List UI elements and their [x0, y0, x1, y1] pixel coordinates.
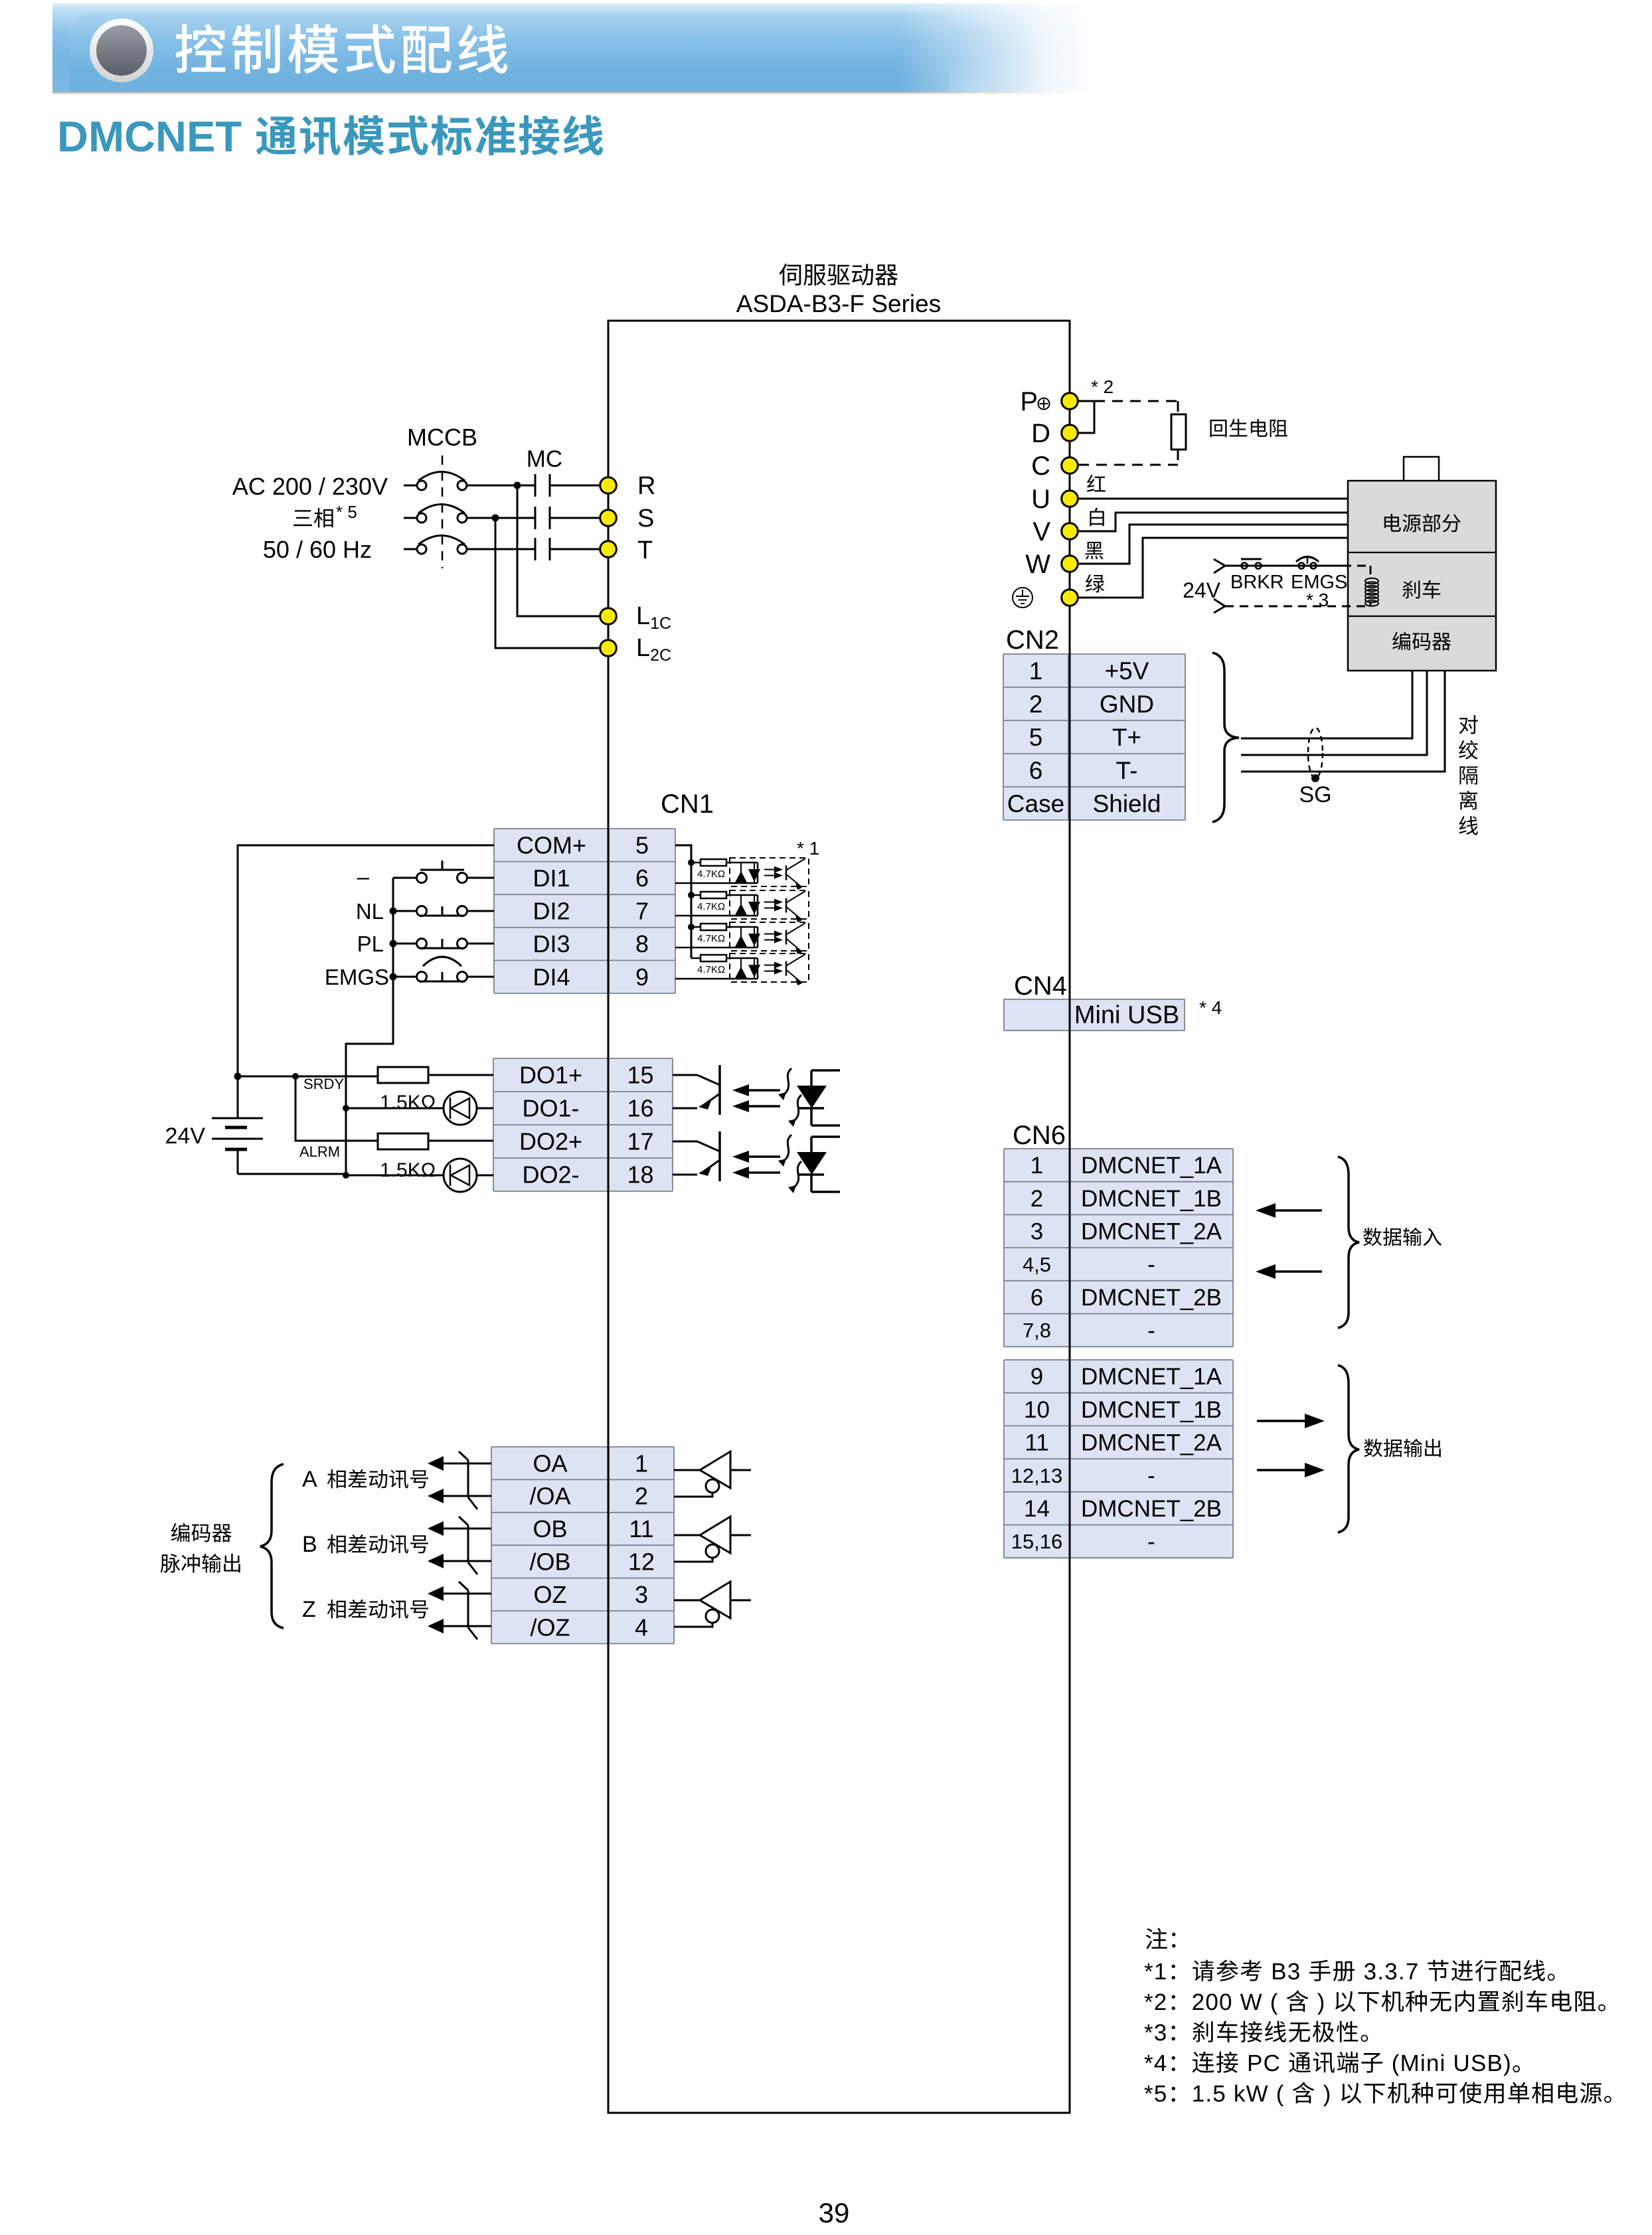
svg-text:DMCNET_1A: DMCNET_1A: [1081, 1153, 1222, 1179]
svg-text:5: 5: [1029, 724, 1043, 751]
svg-text:DI2: DI2: [533, 898, 570, 925]
svg-text:DMCNET_2B: DMCNET_2B: [1081, 1285, 1222, 1311]
svg-text:17: 17: [627, 1128, 653, 1155]
svg-text:11: 11: [629, 1515, 653, 1542]
svg-text:4: 4: [635, 1614, 648, 1641]
svg-text:-: -: [1147, 1252, 1155, 1278]
svg-text:9: 9: [635, 963, 649, 991]
svg-text:DMCNET_2A: DMCNET_2A: [1081, 1430, 1222, 1456]
svg-text:8: 8: [635, 930, 649, 957]
svg-text:R: R: [637, 472, 655, 500]
svg-text:15: 15: [627, 1062, 653, 1089]
svg-text:18: 18: [627, 1161, 653, 1189]
svg-text:DMCNET_2B: DMCNET_2B: [1081, 1496, 1222, 1522]
svg-text:9: 9: [1031, 1364, 1043, 1390]
svg-text:D: D: [1031, 419, 1050, 448]
svg-text:4.7KΩ: 4.7KΩ: [697, 869, 725, 880]
svg-text:ASDA-B3-F Series: ASDA-B3-F Series: [736, 290, 941, 317]
svg-text:* 1: * 1: [797, 838, 819, 859]
svg-text:7,8: 7,8: [1023, 1319, 1051, 1342]
svg-text:DO2+: DO2+: [519, 1128, 582, 1155]
svg-text:Case: Case: [1007, 790, 1064, 817]
svg-text:6: 6: [635, 865, 649, 892]
svg-text:24V: 24V: [165, 1123, 206, 1149]
svg-text:1: 1: [1029, 657, 1043, 685]
svg-text:SG: SG: [1299, 782, 1331, 807]
svg-text:DI3: DI3: [533, 930, 570, 957]
svg-text:1: 1: [1031, 1153, 1043, 1179]
svg-text:14: 14: [1024, 1496, 1050, 1522]
svg-text:CN2: CN2: [1006, 625, 1059, 655]
svg-text:DMCNET_1A: DMCNET_1A: [1081, 1364, 1222, 1390]
svg-text:* 3: * 3: [1306, 590, 1329, 610]
svg-text:EMGS: EMGS: [325, 965, 389, 989]
svg-text:T-: T-: [1116, 757, 1138, 784]
svg-text:DI4: DI4: [533, 963, 570, 991]
svg-text:DI1: DI1: [533, 865, 570, 892]
svg-text:OZ: OZ: [534, 1581, 567, 1608]
svg-text:PL: PL: [357, 932, 384, 956]
svg-text:3: 3: [1031, 1219, 1043, 1245]
svg-text:1.5KΩ: 1.5KΩ: [380, 1092, 436, 1114]
svg-text:DO1+: DO1+: [519, 1062, 582, 1089]
svg-text:1.5KΩ: 1.5KΩ: [380, 1159, 436, 1181]
svg-text:OA: OA: [533, 1449, 567, 1477]
svg-text:CN4: CN4: [1014, 971, 1067, 1001]
svg-text:4.7KΩ: 4.7KΩ: [697, 933, 725, 944]
svg-text:MC: MC: [527, 446, 562, 472]
svg-text:4,5: 4,5: [1023, 1253, 1051, 1276]
svg-text:15,16: 15,16: [1011, 1530, 1063, 1553]
svg-text:/OZ: /OZ: [531, 1614, 570, 1641]
svg-text:MCCB: MCCB: [407, 424, 477, 451]
svg-text:6: 6: [1031, 1285, 1043, 1311]
svg-text:L2C: L2C: [636, 634, 671, 665]
svg-text:2: 2: [1029, 691, 1043, 718]
svg-text:–: –: [357, 865, 370, 889]
svg-text:4.7KΩ: 4.7KΩ: [697, 964, 725, 975]
svg-text:/OA: /OA: [529, 1483, 570, 1510]
svg-text:A: A: [302, 1467, 317, 1492]
svg-text:5: 5: [635, 831, 649, 859]
svg-text:SRDY: SRDY: [303, 1076, 344, 1092]
svg-text:DMCNET: DMCNET: [57, 112, 242, 161]
svg-text:1: 1: [635, 1449, 648, 1477]
svg-text:U: U: [1031, 485, 1050, 514]
svg-text:T+: T+: [1112, 724, 1141, 751]
svg-text:* 2: * 2: [1091, 376, 1114, 397]
svg-text:Shield: Shield: [1093, 790, 1161, 817]
svg-text:COM+: COM+: [517, 831, 586, 859]
svg-text:OB: OB: [533, 1515, 567, 1542]
svg-text:DMCNET_2A: DMCNET_2A: [1081, 1219, 1222, 1245]
svg-text:GND: GND: [1100, 691, 1154, 718]
svg-text:-: -: [1147, 1463, 1155, 1489]
svg-text:12: 12: [628, 1548, 655, 1576]
svg-text:T: T: [637, 537, 653, 564]
svg-text:+5V: +5V: [1105, 657, 1149, 685]
svg-text:2: 2: [635, 1483, 648, 1510]
svg-text:W: W: [1025, 550, 1050, 579]
svg-text:7: 7: [635, 898, 649, 925]
svg-text:4.7KΩ: 4.7KΩ: [697, 901, 725, 912]
svg-text:3: 3: [635, 1581, 648, 1608]
svg-text:2: 2: [1031, 1186, 1043, 1212]
svg-text:11: 11: [1025, 1430, 1048, 1456]
svg-text:CN6: CN6: [1013, 1121, 1066, 1150]
svg-text:DMCNET_1B: DMCNET_1B: [1081, 1186, 1222, 1212]
svg-text:-: -: [1147, 1529, 1155, 1555]
svg-text:B: B: [302, 1532, 317, 1557]
svg-text:-: -: [1147, 1318, 1155, 1344]
svg-text:DMCNET_1B: DMCNET_1B: [1081, 1397, 1222, 1423]
svg-text:ALRM: ALRM: [299, 1143, 340, 1160]
svg-text:Z: Z: [302, 1597, 316, 1622]
svg-text:P: P: [1020, 387, 1038, 416]
svg-text:AC 200 / 230V: AC 200 / 230V: [232, 473, 388, 500]
svg-text:/OB: /OB: [529, 1548, 570, 1576]
svg-text:39: 39: [819, 2197, 850, 2228]
svg-text:CN1: CN1: [661, 789, 714, 819]
svg-text:Mini USB: Mini USB: [1074, 1001, 1179, 1029]
svg-text:12,13: 12,13: [1011, 1464, 1063, 1487]
svg-text:DO2-: DO2-: [522, 1161, 579, 1189]
svg-text:S: S: [637, 505, 654, 533]
svg-text:* 4: * 4: [1199, 997, 1222, 1018]
svg-text:C: C: [1031, 452, 1050, 481]
svg-text:DO1-: DO1-: [522, 1095, 579, 1122]
svg-text:* 5: * 5: [336, 502, 357, 522]
svg-text:L1C: L1C: [636, 602, 671, 633]
svg-text:NL: NL: [356, 899, 384, 924]
svg-text:BRKR: BRKR: [1230, 572, 1284, 593]
svg-text:V: V: [1032, 517, 1050, 546]
svg-text:16: 16: [627, 1095, 653, 1122]
svg-text:50 / 60 Hz: 50 / 60 Hz: [263, 536, 372, 563]
svg-text:10: 10: [1024, 1397, 1050, 1423]
svg-text:24V: 24V: [1183, 578, 1221, 602]
svg-text:6: 6: [1029, 757, 1043, 784]
